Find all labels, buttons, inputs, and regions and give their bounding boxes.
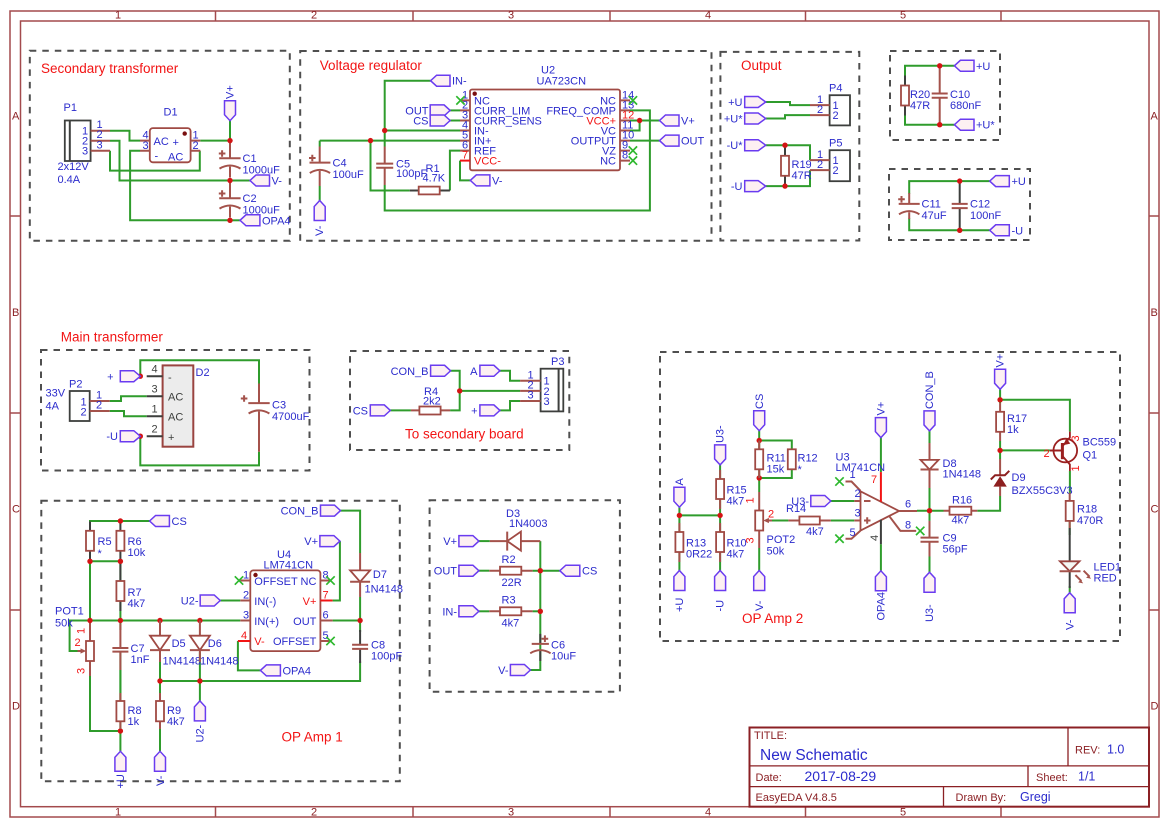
svg-text:8: 8 xyxy=(905,520,911,532)
svg-text:C3: C3 xyxy=(272,400,286,412)
junction pin12 node xyxy=(637,118,642,123)
svg-text:2: 2 xyxy=(768,509,774,521)
wire junction down to R4 xyxy=(450,391,460,411)
net port -U xyxy=(731,181,766,194)
svg-text:2x12V: 2x12V xyxy=(58,161,90,173)
net port V+ vertical xyxy=(225,85,237,120)
svg-text:B: B xyxy=(1151,307,1158,319)
junction node OPA4 xyxy=(227,218,232,223)
wire OUTPUT pin10 to OUT port xyxy=(630,140,660,142)
net port V- below POT2 xyxy=(754,571,766,612)
svg-text:RED: RED xyxy=(1094,573,1117,585)
svg-text:OUT: OUT xyxy=(434,566,458,578)
svg-text:5: 5 xyxy=(850,527,856,539)
net port +U bottom left xyxy=(674,571,686,613)
svg-text:5: 5 xyxy=(900,807,906,819)
svg-text:P4: P4 xyxy=(829,83,842,95)
junction D5 top xyxy=(157,618,162,623)
svg-text:4k7: 4k7 xyxy=(727,549,745,561)
junction IN- node xyxy=(382,128,387,133)
junction C10 top xyxy=(937,63,942,68)
svg-text:2: 2 xyxy=(81,407,87,419)
svg-text:+: + xyxy=(471,405,477,417)
svg-text:V-: V- xyxy=(314,225,326,236)
svg-text:V+: V+ xyxy=(225,85,237,99)
svg-text:2017-08-29: 2017-08-29 xyxy=(805,768,877,784)
svg-text:1N4148: 1N4148 xyxy=(163,656,202,668)
svg-text:OFFSET: OFFSET xyxy=(273,636,317,648)
resistor R11 xyxy=(755,441,763,479)
net port U2- bottom xyxy=(194,701,206,743)
row ticks right xyxy=(1149,216,1159,610)
net port CS xyxy=(150,516,187,529)
svg-text:4: 4 xyxy=(705,9,711,21)
svg-text:3: 3 xyxy=(97,139,103,151)
net port A vertical xyxy=(674,478,686,508)
svg-text:3: 3 xyxy=(745,537,757,543)
svg-text:1: 1 xyxy=(1070,465,1082,471)
svg-text:*: * xyxy=(798,464,803,476)
junction D6 bottom xyxy=(197,678,202,683)
wire V+ port down xyxy=(229,121,231,141)
net port CS xyxy=(353,405,391,418)
wire R6 bottom to R7 xyxy=(119,561,121,581)
op-amp U4 LM741CN xyxy=(238,569,333,651)
svg-text:OP Amp 2: OP Amp 2 xyxy=(742,611,803,626)
U3 pin8 stub and X xyxy=(889,516,924,535)
potentiometer POT2 xyxy=(745,492,774,548)
wire CON_B to junction xyxy=(451,371,460,391)
wire LED1 to V- port xyxy=(1069,586,1071,593)
svg-text:2: 2 xyxy=(311,9,317,21)
U3 pin2 stub xyxy=(854,488,860,501)
junction IN+ node xyxy=(368,138,373,143)
svg-text:22R: 22R xyxy=(502,577,522,589)
junction R11 bottom xyxy=(757,475,762,480)
wire OUT to R2 xyxy=(479,570,489,572)
svg-text:Output: Output xyxy=(741,58,782,73)
svg-text:C12: C12 xyxy=(970,199,990,211)
net port OUT left xyxy=(405,105,450,118)
svg-text:V+: V+ xyxy=(681,116,695,128)
svg-text:2: 2 xyxy=(75,637,81,649)
wire IN- to R3 xyxy=(479,610,489,612)
net port + to P3 xyxy=(471,405,500,418)
resistor R10 xyxy=(716,523,724,562)
wire IN- port to U2 pin4 xyxy=(385,81,460,147)
svg-text:1nF: 1nF xyxy=(131,654,150,666)
section box OP Amp 2 xyxy=(660,352,1120,641)
junction R15 node xyxy=(717,513,722,518)
svg-text:AC: AC xyxy=(168,412,183,424)
resistor R18 xyxy=(1066,493,1074,528)
net port OUT right xyxy=(660,135,705,148)
net port OUT xyxy=(434,565,479,578)
svg-text:OP Amp 1: OP Amp 1 xyxy=(282,730,343,745)
svg-text:7: 7 xyxy=(871,474,877,486)
net port OPA4 xyxy=(240,215,291,228)
svg-text:2: 2 xyxy=(833,110,839,122)
LED LED1 xyxy=(1060,528,1092,588)
svg-text:4: 4 xyxy=(869,535,881,541)
wire VCC+ pin12 to V+ port xyxy=(630,120,660,122)
svg-text:1: 1 xyxy=(115,807,121,819)
svg-text:3: 3 xyxy=(152,384,158,396)
svg-text:-U: -U xyxy=(1012,225,1024,237)
wire V+ port to pin7 xyxy=(333,541,340,600)
wire +U* rail bottom xyxy=(905,116,954,125)
net port IN- top xyxy=(431,75,467,88)
net port IN- xyxy=(442,606,479,619)
connector P1 xyxy=(65,119,110,161)
wire P1.1 to D1.4 xyxy=(110,131,140,141)
wire R15 to node xyxy=(719,499,721,515)
wire CON_B port to D8 xyxy=(929,431,931,443)
wire bottom rail D5 D6 C8 xyxy=(160,652,360,681)
net port CON_B top xyxy=(281,505,341,517)
svg-text:+U: +U xyxy=(1012,176,1026,188)
junction -U node xyxy=(138,434,143,439)
bridge rectifier D1 xyxy=(140,128,200,163)
svg-text:0R22: 0R22 xyxy=(686,549,712,561)
wire POT1 pin3 to R8 bottom xyxy=(90,661,120,731)
wire D1.1 to V+ rail xyxy=(200,140,230,142)
wire P1.2 to V- rail xyxy=(110,141,230,181)
wire + node to C3 top xyxy=(140,360,259,383)
connector P5 xyxy=(810,149,850,181)
svg-text:A: A xyxy=(1151,111,1159,123)
svg-text:100nF: 100nF xyxy=(970,210,1001,222)
net port V- bottom xyxy=(498,665,530,678)
svg-text:IN(-): IN(-) xyxy=(254,596,276,608)
wire A node to R15 node xyxy=(679,514,720,516)
net port V- below LED xyxy=(1064,593,1076,630)
capacitor C10 xyxy=(932,66,948,125)
diode D8 xyxy=(921,443,939,488)
resistor R14 xyxy=(788,517,831,525)
svg-text:3: 3 xyxy=(243,609,249,621)
wire V+ rail to Q1 emitter xyxy=(1000,400,1070,432)
resistor R8 xyxy=(116,693,124,729)
wire R7 bottom to C7 xyxy=(119,601,121,630)
diode D7 xyxy=(350,553,370,597)
wire R11 bottom node xyxy=(758,469,760,492)
wire R14 to pin3 xyxy=(831,520,854,522)
wire V+ port to pin7 xyxy=(880,438,882,473)
U3 pin6 stub xyxy=(899,499,917,512)
no-connect X pin1 xyxy=(456,96,464,104)
wire + to P3.3 xyxy=(500,401,520,410)
wire POT2 bottom to V- port xyxy=(758,548,760,571)
wire +U to P4.1 xyxy=(766,102,810,105)
net port + xyxy=(107,371,140,384)
svg-text:CS: CS xyxy=(413,116,428,128)
wire R1 to REF pin6 xyxy=(450,151,460,191)
net port V- xyxy=(250,175,282,188)
svg-text:AC: AC xyxy=(168,392,183,404)
wire V- junction to port xyxy=(230,180,250,182)
no-connect X pin9 xyxy=(629,146,637,154)
wire CS port to R11 xyxy=(758,431,760,450)
junction C12 bottom xyxy=(957,228,962,233)
svg-text:3: 3 xyxy=(508,807,514,819)
resistor R7 xyxy=(116,561,124,611)
resistor R6 xyxy=(116,522,124,562)
wire R8 bottom to +U port xyxy=(119,721,121,751)
net port V+ right xyxy=(660,115,695,128)
svg-text:V+: V+ xyxy=(443,536,457,548)
svg-text:OPA4: OPA4 xyxy=(262,215,291,227)
svg-text:V+: V+ xyxy=(876,402,888,416)
svg-text:470R: 470R xyxy=(1077,515,1103,527)
svg-text:+: + xyxy=(173,137,179,149)
svg-text:2: 2 xyxy=(311,807,317,819)
wire U3- port to pin2 xyxy=(831,500,855,502)
net port U2- at pin2 xyxy=(181,595,220,608)
svg-text:-U: -U xyxy=(715,600,727,612)
svg-text:R18: R18 xyxy=(1077,504,1097,516)
svg-text:A: A xyxy=(12,111,20,123)
svg-text:LM741CN: LM741CN xyxy=(264,560,314,572)
wire POT2 wiper to R14 xyxy=(772,520,788,522)
svg-text:7: 7 xyxy=(323,589,329,601)
no-connect X pin14 xyxy=(629,96,637,104)
svg-text:U3-: U3- xyxy=(924,604,936,622)
section box D3 R2 R3 C6 xyxy=(430,500,620,692)
section box C11 C12 xyxy=(889,169,1030,240)
svg-text:+U: +U xyxy=(976,61,990,73)
svg-text:47R: 47R xyxy=(910,100,930,112)
connector P2 xyxy=(70,390,110,421)
svg-text:OFFSET: OFFSET xyxy=(254,576,298,588)
wire V+ port to R17 xyxy=(999,389,1001,403)
no-connect X U4 pin5 xyxy=(326,637,334,645)
svg-text:V+: V+ xyxy=(995,354,1007,368)
U3 pin4 stub xyxy=(869,520,881,545)
svg-text:V-: V- xyxy=(498,665,509,677)
net port V- below C4 vertical xyxy=(314,201,326,237)
svg-text:3: 3 xyxy=(508,9,514,21)
net port CS left xyxy=(413,115,450,128)
svg-text:3: 3 xyxy=(143,140,149,152)
svg-text:+U: +U xyxy=(115,774,127,788)
junction R2 CS node xyxy=(538,568,543,573)
svg-text:U3-: U3- xyxy=(791,496,809,508)
wire CS node to R5 top xyxy=(90,521,150,531)
svg-text:Main transformer: Main transformer xyxy=(61,330,164,345)
svg-text:VCC-: VCC- xyxy=(474,156,501,168)
svg-text:4: 4 xyxy=(241,630,247,642)
net port CS right xyxy=(560,565,597,578)
net port -U bottom xyxy=(715,571,727,612)
svg-text:3: 3 xyxy=(1070,435,1082,441)
svg-text:Gregi: Gregi xyxy=(1020,790,1051,804)
resistor R17 xyxy=(996,403,1004,441)
svg-text:15k: 15k xyxy=(767,464,785,476)
svg-text:1: 1 xyxy=(850,469,856,481)
net port OPA4 left xyxy=(260,665,311,678)
svg-text:C11: C11 xyxy=(922,199,941,211)
svg-text:50k: 50k xyxy=(767,546,785,558)
svg-text:OPA4: OPA4 xyxy=(876,592,888,621)
svg-text:7: 7 xyxy=(462,150,468,162)
svg-text:CON_B: CON_B xyxy=(391,366,429,378)
wire OUT port to pin2 xyxy=(450,109,460,111)
svg-text:NC: NC xyxy=(301,576,317,588)
svg-text:2: 2 xyxy=(193,140,199,152)
junction CS node xyxy=(118,518,123,523)
net port OPA4 below U3 xyxy=(875,571,887,621)
svg-text:OPA4: OPA4 xyxy=(283,666,312,678)
svg-text:10k: 10k xyxy=(128,547,146,559)
svg-text:AC: AC xyxy=(168,152,183,164)
svg-text:UA723CN: UA723CN xyxy=(537,76,587,88)
wire R5 bottom down to POT1 xyxy=(89,561,91,620)
wire U2- port to pin2 xyxy=(220,600,240,602)
svg-text:CON_B: CON_B xyxy=(281,506,319,518)
junction R5 bottom xyxy=(87,559,92,564)
wire pin6 to OUT node xyxy=(333,620,361,622)
svg-text:+U: +U xyxy=(674,598,686,612)
wire D7 to OUT node xyxy=(359,597,361,632)
svg-text:C2: C2 xyxy=(243,193,257,205)
svg-text:47R: 47R xyxy=(792,170,812,182)
capacitor C5 xyxy=(376,147,393,186)
svg-text:P2: P2 xyxy=(69,379,82,391)
svg-text:Drawn By:: Drawn By: xyxy=(956,792,1007,804)
svg-text:1: 1 xyxy=(115,9,121,21)
svg-text:4k7: 4k7 xyxy=(128,598,146,610)
svg-text:IN(+): IN(+) xyxy=(254,616,279,628)
svg-text:POT2: POT2 xyxy=(767,534,796,546)
net port +U xyxy=(728,97,766,110)
capacitor C7 xyxy=(112,624,128,702)
column ticks bottom xyxy=(216,807,1002,817)
junction CON_B node xyxy=(457,388,462,393)
section box OP Amp 1 xyxy=(41,501,400,782)
svg-text:CS: CS xyxy=(353,405,368,417)
net port +U top right xyxy=(954,60,990,73)
svg-text:CON_B: CON_B xyxy=(924,371,936,409)
svg-text:CS: CS xyxy=(754,394,766,409)
bridge rectifier D2 xyxy=(147,364,194,447)
svg-text:1N4148: 1N4148 xyxy=(943,469,982,481)
net port CS vertical xyxy=(754,394,766,431)
svg-text:1/1: 1/1 xyxy=(1078,770,1095,784)
wire VCC- pin7 to V- port xyxy=(460,161,470,181)
connector P3 xyxy=(520,369,563,412)
svg-text:33V: 33V xyxy=(46,388,66,400)
op-amp U3 triangle xyxy=(861,491,900,530)
svg-text:+U*: +U* xyxy=(976,120,995,132)
svg-text:A: A xyxy=(470,366,478,378)
U3 pin1 stub and X xyxy=(835,469,860,491)
junction node V+ xyxy=(227,138,232,143)
wire R17 to base node xyxy=(999,441,1001,459)
svg-text:Date:: Date: xyxy=(756,772,782,784)
svg-text:AC: AC xyxy=(154,136,169,148)
title block outline xyxy=(750,728,1150,807)
svg-text:2: 2 xyxy=(833,165,839,177)
svg-text:4: 4 xyxy=(152,364,158,376)
wire CS to R4 xyxy=(390,409,411,411)
svg-text:U2-: U2- xyxy=(195,724,207,742)
junction -U* node xyxy=(782,143,787,148)
no-connect X U4 pin8 xyxy=(326,576,334,584)
capacitor C3 xyxy=(241,384,270,452)
wire R5 R6 bottoms xyxy=(90,560,120,562)
wire R12 bottom to node xyxy=(759,469,792,478)
svg-text:1: 1 xyxy=(152,404,158,416)
capacitor C9 xyxy=(921,521,939,557)
svg-text:P3: P3 xyxy=(551,356,564,368)
capacitor C4 xyxy=(309,147,330,201)
svg-text:2: 2 xyxy=(817,159,823,171)
wire R2 to CS node xyxy=(533,570,560,572)
net port +U bottom xyxy=(115,751,127,788)
junction -U node xyxy=(782,183,787,188)
column ticks top xyxy=(216,11,1002,21)
svg-text:5: 5 xyxy=(323,630,329,642)
junction C10 bottom xyxy=(937,122,942,127)
resistor R13 xyxy=(675,523,683,562)
svg-text:4700uF: 4700uF xyxy=(272,411,310,423)
junction OUT node xyxy=(357,618,362,623)
zener diode D9 xyxy=(991,459,1010,496)
wire U3- port to R15 xyxy=(719,465,721,479)
svg-text:2: 2 xyxy=(855,488,861,500)
wire IN+ rail C4 to U2 pin5 xyxy=(320,141,460,147)
net port U3- at pin2 xyxy=(791,496,831,509)
svg-text:-U: -U xyxy=(106,431,118,443)
svg-text:New Schematic: New Schematic xyxy=(760,747,868,764)
svg-text:3: 3 xyxy=(76,668,88,674)
capacitor C12 xyxy=(952,181,968,230)
svg-text:LM741CN: LM741CN xyxy=(836,462,886,474)
svg-text:3: 3 xyxy=(528,390,534,402)
junction R8 bottom xyxy=(118,728,123,733)
svg-text:1N4003: 1N4003 xyxy=(509,518,548,530)
svg-text:D6: D6 xyxy=(208,638,222,650)
wire D3 to CS rail xyxy=(530,541,540,670)
no-connect X pin8 xyxy=(629,156,637,164)
wire junction to P3.2 xyxy=(460,390,520,392)
svg-text:-U: -U xyxy=(731,181,743,193)
svg-text:1N4148: 1N4148 xyxy=(200,656,239,668)
junction + node xyxy=(138,374,143,379)
svg-text:B: B xyxy=(12,307,19,319)
svg-text:R2: R2 xyxy=(502,554,516,566)
wire U2- port bottom xyxy=(199,681,201,701)
svg-text:-: - xyxy=(168,372,172,384)
svg-text:4k7: 4k7 xyxy=(167,716,185,728)
junction R6 bottom xyxy=(118,559,123,564)
wire R10 to -U port xyxy=(719,552,721,571)
U3 pin3 stub xyxy=(854,508,860,521)
svg-text:56pF: 56pF xyxy=(943,544,968,556)
net port -U* xyxy=(727,140,766,153)
wire IN+ row xyxy=(90,620,240,622)
section box Output xyxy=(720,52,859,241)
svg-text:+U*: +U* xyxy=(724,114,743,126)
IC U2 UA723CN xyxy=(460,89,634,170)
title block Sheet divider xyxy=(1027,766,1029,787)
wire -U rail C11 C12 xyxy=(909,218,990,230)
svg-text:U3-: U3- xyxy=(715,425,727,443)
wire -U node to C3 bottom xyxy=(140,436,259,465)
svg-text:2: 2 xyxy=(243,589,249,601)
resistor R5 xyxy=(86,522,94,562)
